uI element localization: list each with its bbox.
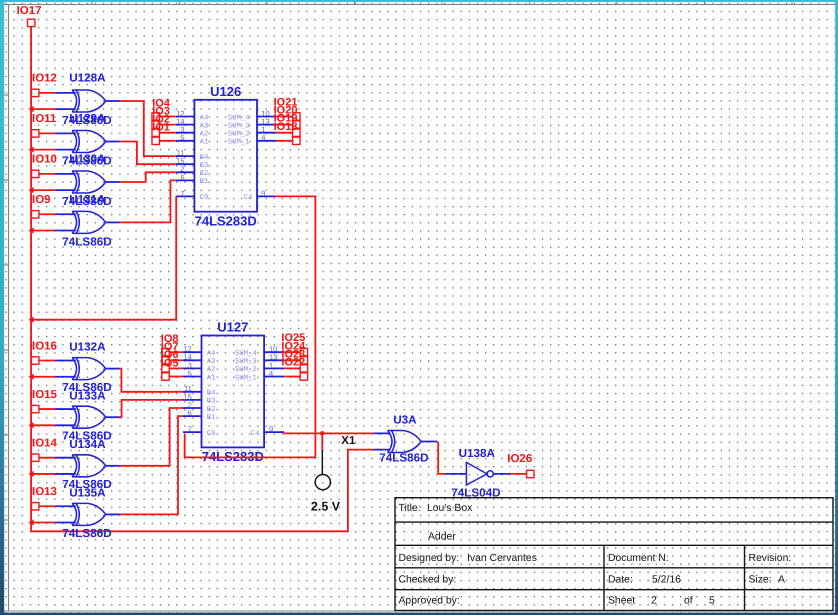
svg-text:IO16: IO16 — [32, 340, 57, 352]
IO connector pin IO19 — [293, 129, 300, 136]
wire U127.SUM_3 to IO24 — [284, 359, 300, 361]
wire U131A.Y to U126.B1 — [120, 180, 176, 222]
wire IO8 to U127.A4 — [169, 351, 183, 353]
svg-text:IO15: IO15 — [32, 389, 58, 401]
svg-text:C4: C4 — [251, 430, 260, 438]
svg-text:74LS283D: 74LS283D — [195, 214, 257, 229]
svg-text:U128A: U128A — [69, 72, 106, 85]
wire U129A.Y to U126.B3 — [120, 142, 176, 165]
wire IO17 bus to U133A input B — [31, 424, 55, 426]
svg-text:4: 4 — [261, 133, 265, 142]
adder U127 74LS283D body — [202, 336, 265, 448]
svg-text:7: 7 — [180, 189, 184, 198]
U128A output pin stub — [106, 100, 120, 102]
wire U135A.Y to U127.B1 — [120, 416, 183, 514]
node X1 junction dot — [320, 431, 325, 436]
IO connector pin IO20 — [293, 121, 300, 128]
IO connector pin IO2 — [152, 129, 159, 136]
U126 pin B4 (pin 11) — [176, 149, 209, 162]
U130A input pin stubs — [55, 173, 76, 175]
svg-text:IO11: IO11 — [32, 113, 57, 125]
U3A output pin stub — [421, 441, 437, 443]
U126 pin B3 (pin 15) — [176, 157, 209, 170]
svg-text:Title:: Title: — [399, 503, 421, 514]
IO connector pin IO8 — [162, 349, 169, 356]
wire U126.C4 to U127.C0 — [185, 196, 316, 457]
U127 pin B3 (pin 15) — [183, 392, 215, 405]
wire U126.SUM_1 to IO18 — [276, 140, 293, 142]
IO connector pin IO24 — [300, 357, 307, 364]
svg-text:IO1: IO1 — [152, 122, 170, 134]
XOR gate U131A — [72, 211, 105, 233]
wire U127.SUM_1 to IO22 — [284, 376, 300, 378]
wire IO5 to U127.A1 — [169, 376, 183, 378]
svg-text:SUM_3: SUM_3 — [235, 358, 257, 366]
U129A input pin stubs — [55, 132, 76, 134]
svg-text:B4: B4 — [207, 390, 216, 398]
U127 pin A4 (pin 12) — [183, 345, 216, 358]
svg-text:A4: A4 — [200, 114, 209, 122]
junction on IO17 net at (31.1,230.53) — [28, 227, 33, 233]
wire X1 node to voltage source — [321, 433, 323, 449]
wire U132A.Y to U127.B4 — [120, 369, 183, 392]
U126 pin C0 (pin 7) — [176, 189, 209, 202]
XOR gate U132A — [72, 358, 105, 380]
svg-text:2: 2 — [651, 595, 657, 606]
svg-text:A1: A1 — [207, 374, 216, 382]
junction on IO17 net at (31.1,149.63) — [28, 147, 33, 153]
svg-text:IO13: IO13 — [32, 486, 57, 498]
U132A output pin stub — [106, 368, 120, 370]
IO connector pin IO18 — [293, 137, 300, 144]
svg-text:U3A: U3A — [393, 414, 417, 427]
svg-text:SUM_1: SUM_1 — [235, 374, 258, 382]
svg-text:U130A: U130A — [69, 153, 106, 166]
U126 pin B2 (pin 2) — [176, 165, 209, 178]
U126 pin SUM_2 (pin 1) — [228, 125, 276, 138]
U138A output pin stub — [493, 473, 510, 475]
svg-text:of: of — [684, 595, 693, 606]
svg-text:74LS86D: 74LS86D — [62, 527, 111, 540]
svg-text:74LS86D: 74LS86D — [62, 235, 111, 248]
IO connector pin IO17 — [28, 19, 35, 26]
svg-text:SUM_4: SUM_4 — [228, 114, 251, 122]
wire IO17 bus to U131A input B — [31, 230, 55, 232]
svg-text:IO18: IO18 — [274, 121, 298, 133]
svg-text:SUM_3: SUM_3 — [228, 122, 250, 130]
wire U3A.Y to U138A input — [438, 442, 446, 474]
wire U126.SUM_3 to IO20 — [276, 124, 293, 126]
U127 pin B1 (pin 6) — [183, 409, 216, 422]
IO connector pin IO15 — [32, 405, 39, 412]
svg-text:A3: A3 — [200, 122, 209, 130]
wire U138A.Y to IO26 — [510, 473, 527, 475]
U128A input pin stubs — [55, 92, 76, 94]
svg-text:B1: B1 — [200, 178, 209, 186]
junction on IO17 net at (31.1,522.53) — [28, 519, 33, 525]
svg-text:IO10: IO10 — [32, 154, 57, 166]
junction on IO17 net at (31.1,376.73) — [28, 374, 33, 380]
svg-text:B2: B2 — [200, 170, 209, 178]
wire U126.SUM_4 to IO21 — [276, 116, 293, 118]
U127 pin SUM_3 (pin 13) — [235, 353, 284, 366]
svg-text:U129A: U129A — [69, 112, 106, 125]
wire U126.SUM_2 to IO19 — [276, 132, 293, 134]
wire U134A.Y to U127.B2 — [120, 408, 183, 466]
svg-text:U133A: U133A — [69, 389, 106, 402]
U133A output pin stub — [106, 416, 120, 418]
wire U127.SUM_4 to IO25 — [284, 351, 300, 353]
wire IO12 to U128A input A — [39, 92, 55, 94]
svg-text:U131A: U131A — [69, 193, 106, 206]
svg-text:Approved by:: Approved by: — [399, 595, 460, 606]
svg-text:4: 4 — [269, 369, 273, 378]
svg-text:Revision:: Revision: — [749, 553, 792, 564]
svg-text:5: 5 — [180, 133, 184, 142]
U126 pin SUM_4 (pin 10) — [228, 109, 276, 122]
IO connector pin IO12 — [32, 89, 39, 96]
U134A output pin stub — [106, 465, 120, 467]
U126 pin A1 (pin 5) — [176, 133, 209, 146]
wire IO10 to U130A input A — [39, 173, 55, 175]
junction on IO17 net at (31.1,190.13) — [28, 187, 33, 193]
U127 pin SUM_1 (pin 4) — [235, 369, 284, 382]
wire IO3 to U126.A3 — [159, 124, 176, 126]
wire IO17 bus to U134A input B — [31, 473, 55, 475]
svg-text:6: 6 — [188, 409, 192, 418]
svg-text:IO26: IO26 — [507, 453, 532, 465]
IO connector pin IO14 — [32, 454, 39, 461]
svg-text:5: 5 — [709, 595, 715, 606]
U135A input pin stubs — [55, 505, 76, 507]
svg-text:A2: A2 — [207, 366, 216, 374]
svg-text:9: 9 — [269, 425, 273, 434]
svg-text:SUM_4: SUM_4 — [235, 350, 258, 358]
wire IO1 to U126.A1 — [159, 140, 176, 142]
svg-text:2.5 V: 2.5 V — [311, 499, 341, 513]
wire IO17 net: left bus down, along bottom, up to U3A input B — [31, 27, 373, 532]
svg-text:IO14: IO14 — [32, 438, 58, 450]
wire U128A.Y to U126.B4 — [120, 101, 176, 156]
wire IO13 to U135A input A — [39, 505, 55, 507]
IO connector pin IO3 — [152, 121, 159, 128]
wire IO17 bus to U132A input B — [31, 376, 55, 378]
wire IO6 to U127.A2 — [169, 367, 183, 369]
svg-text:SUM_2: SUM_2 — [235, 366, 257, 374]
wire IO4 to U126.A4 — [159, 116, 176, 118]
voltage source 2.5V circle — [315, 475, 330, 490]
IO connector pin IO7 — [162, 357, 169, 364]
svg-text:B3: B3 — [207, 398, 216, 406]
U126 pin A4 (pin 12) — [176, 109, 209, 122]
wire IO2 to U126.A2 — [159, 132, 176, 134]
IO connector pin IO16 — [32, 357, 39, 364]
U134A input pin stubs — [55, 457, 76, 459]
U130A output pin stub — [106, 181, 120, 183]
IO connector pin IO11 — [32, 130, 39, 137]
XOR gate U128A — [72, 90, 105, 112]
svg-text:A3: A3 — [207, 358, 216, 366]
wire IO11 to U129A input A — [39, 132, 55, 134]
adder U126 74LS283D body — [194, 100, 257, 212]
svg-text:B3: B3 — [200, 162, 209, 170]
svg-text:C0: C0 — [200, 194, 209, 202]
svg-text:A1: A1 — [200, 139, 209, 147]
svg-text:74LS86D: 74LS86D — [379, 452, 428, 465]
svg-text:X1: X1 — [341, 435, 356, 447]
svg-text:U127: U127 — [217, 320, 248, 335]
U133A input pin stubs — [55, 408, 76, 410]
wire IO17 bus to U128A input B — [31, 108, 55, 110]
XOR gate U3A — [388, 431, 421, 453]
IO connector pin IO4 — [152, 113, 159, 120]
svg-text:B4: B4 — [200, 154, 209, 162]
XOR gate U134A — [72, 455, 105, 477]
U126 pin A2 (pin 3) — [176, 125, 209, 138]
svg-text:B2: B2 — [207, 406, 216, 414]
svg-text:IO12: IO12 — [32, 73, 57, 85]
U131A output pin stub — [106, 221, 120, 223]
IO connector pin IO10 — [32, 170, 39, 177]
svg-text:Checked by:: Checked by: — [399, 575, 457, 586]
svg-text:IO5: IO5 — [161, 357, 179, 369]
svg-text:U135A: U135A — [69, 487, 106, 500]
svg-text:6: 6 — [180, 173, 184, 182]
U127 pin SUM_2 (pin 1) — [235, 361, 284, 374]
svg-text:A4: A4 — [207, 350, 216, 358]
XOR gate U135A — [72, 503, 105, 525]
wire IO7 to U127.A3 — [169, 359, 183, 361]
svg-text:IO17: IO17 — [17, 5, 42, 17]
IO connector pin IO22 — [300, 373, 307, 380]
junction on IO17 net at (31.1,319.7) — [28, 317, 33, 323]
svg-text:Size:: Size: — [749, 575, 772, 586]
svg-text:C4: C4 — [244, 194, 253, 202]
svg-text:Adder: Adder — [428, 532, 456, 543]
junction on IO17 net at (31.1,425.33) — [28, 422, 33, 428]
junction on IO17 net at (31.1,473.93) — [28, 471, 33, 477]
wire U126.C0 to IO17 bus — [31, 196, 176, 319]
U135A output pin stub — [106, 513, 120, 515]
IO connector pin IO6 — [162, 365, 169, 372]
svg-text:SUM_1: SUM_1 — [228, 139, 251, 147]
U126 pin B1 (pin 6) — [176, 173, 209, 186]
IO connector pin IO25 — [300, 349, 307, 356]
junction on IO17 net at (31.1,109.13) — [28, 106, 33, 112]
U127 pin A3 (pin 14) — [183, 353, 215, 366]
wire U127.C4 to X1 node and U3A input A — [283, 432, 373, 434]
IO connector pin IO26 — [527, 470, 534, 477]
svg-text:C0: C0 — [207, 430, 216, 438]
svg-text:IO22: IO22 — [281, 357, 305, 369]
U132A input pin stubs — [55, 359, 76, 361]
svg-text:IO9: IO9 — [32, 194, 51, 206]
IO connector pin IO9 — [32, 211, 39, 218]
svg-text:Date:: Date: — [608, 575, 633, 586]
svg-text:9: 9 — [261, 189, 265, 198]
svg-text:B1: B1 — [207, 414, 216, 422]
XOR gate U133A — [72, 406, 105, 428]
U127 pin C0 (pin 7) — [183, 425, 215, 438]
wire U127.SUM_2 to IO23 — [284, 367, 300, 369]
svg-text:U134A: U134A — [69, 438, 106, 451]
IO connector pin IO5 — [162, 373, 169, 380]
U3A input pin stubs — [373, 432, 390, 434]
svg-text:5/2/16: 5/2/16 — [652, 575, 681, 586]
wire U133A.Y to U127.B3 — [120, 400, 183, 417]
U127 pin A2 (pin 3) — [183, 361, 215, 374]
wire IO9 to U131A input A — [39, 213, 55, 215]
U131A input pin stubs — [55, 213, 76, 215]
svg-text:Lou's Box: Lou's Box — [427, 503, 473, 514]
inverter U138A — [466, 462, 487, 485]
U127 pin SUM_4 (pin 10) — [235, 345, 284, 358]
IO connector pin IO1 — [152, 137, 159, 144]
U127 pin A1 (pin 5) — [183, 369, 216, 382]
IO connector pin IO23 — [300, 365, 307, 372]
svg-text:U138A: U138A — [459, 447, 496, 460]
wire IO17 bus to U129A input B — [31, 149, 55, 151]
U126 pin SUM_1 (pin 4) — [228, 133, 276, 146]
svg-text:A2: A2 — [200, 131, 209, 139]
U126 pin SUM_3 (pin 13) — [228, 117, 276, 130]
wire IO15 to U133A input A — [39, 408, 55, 410]
svg-text:Ivan Cervantes: Ivan Cervantes — [467, 553, 537, 564]
svg-text:SUM_2: SUM_2 — [228, 131, 250, 139]
svg-text:5: 5 — [188, 369, 192, 378]
U127 pin C4 (pin 9) — [251, 425, 284, 438]
wire IO17 bus to U130A input B — [31, 189, 55, 191]
wire IO17 bus to U135A input B — [31, 522, 55, 524]
U129A output pin stub — [106, 141, 120, 143]
XOR gate U130A — [72, 171, 105, 193]
IO connector pin IO21 — [293, 113, 300, 120]
voltage source lead — [321, 450, 323, 475]
svg-text:Designed by:: Designed by: — [399, 553, 460, 564]
svg-text:7: 7 — [188, 425, 192, 434]
U138A input pin stub — [446, 473, 466, 475]
svg-text:U132A: U132A — [69, 341, 106, 354]
svg-text:A: A — [778, 575, 785, 586]
U127 pin B2 (pin 2) — [183, 400, 215, 413]
svg-text:U126: U126 — [210, 84, 241, 99]
wire IO16 to U132A input A — [39, 359, 55, 361]
title block table — [395, 498, 833, 611]
teal window border — [0, 0, 838, 2]
XOR gate U129A — [72, 131, 105, 153]
wire IO14 to U134A input A — [39, 457, 55, 459]
svg-text:Sheet: Sheet — [608, 595, 635, 606]
U126 pin C4 (pin 9) — [244, 189, 276, 202]
U127 pin B4 (pin 11) — [183, 384, 216, 397]
IO connector pin IO13 — [32, 503, 39, 510]
U126 pin A3 (pin 14) — [176, 117, 209, 130]
wire U130A.Y to U126.B2 — [120, 172, 176, 182]
svg-text:Document N:: Document N: — [608, 553, 669, 564]
